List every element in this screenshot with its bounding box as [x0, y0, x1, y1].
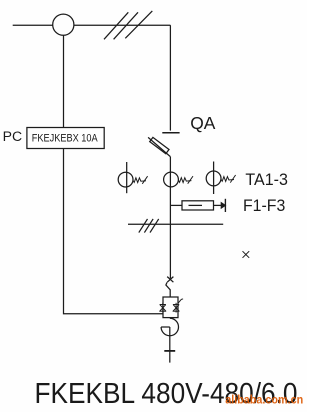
- svg-text:TA1-3: TA1-3: [245, 171, 288, 189]
- svg-text:FKEJKEBX 10A: FKEJKEBX 10A: [32, 132, 98, 144]
- svg-text:F1-F3: F1-F3: [243, 197, 285, 215]
- svg-text:alibaba.com.cn: alibaba.com.cn: [225, 395, 303, 407]
- svg-text:QA: QA: [190, 113, 216, 133]
- svg-text:PC: PC: [3, 129, 23, 144]
